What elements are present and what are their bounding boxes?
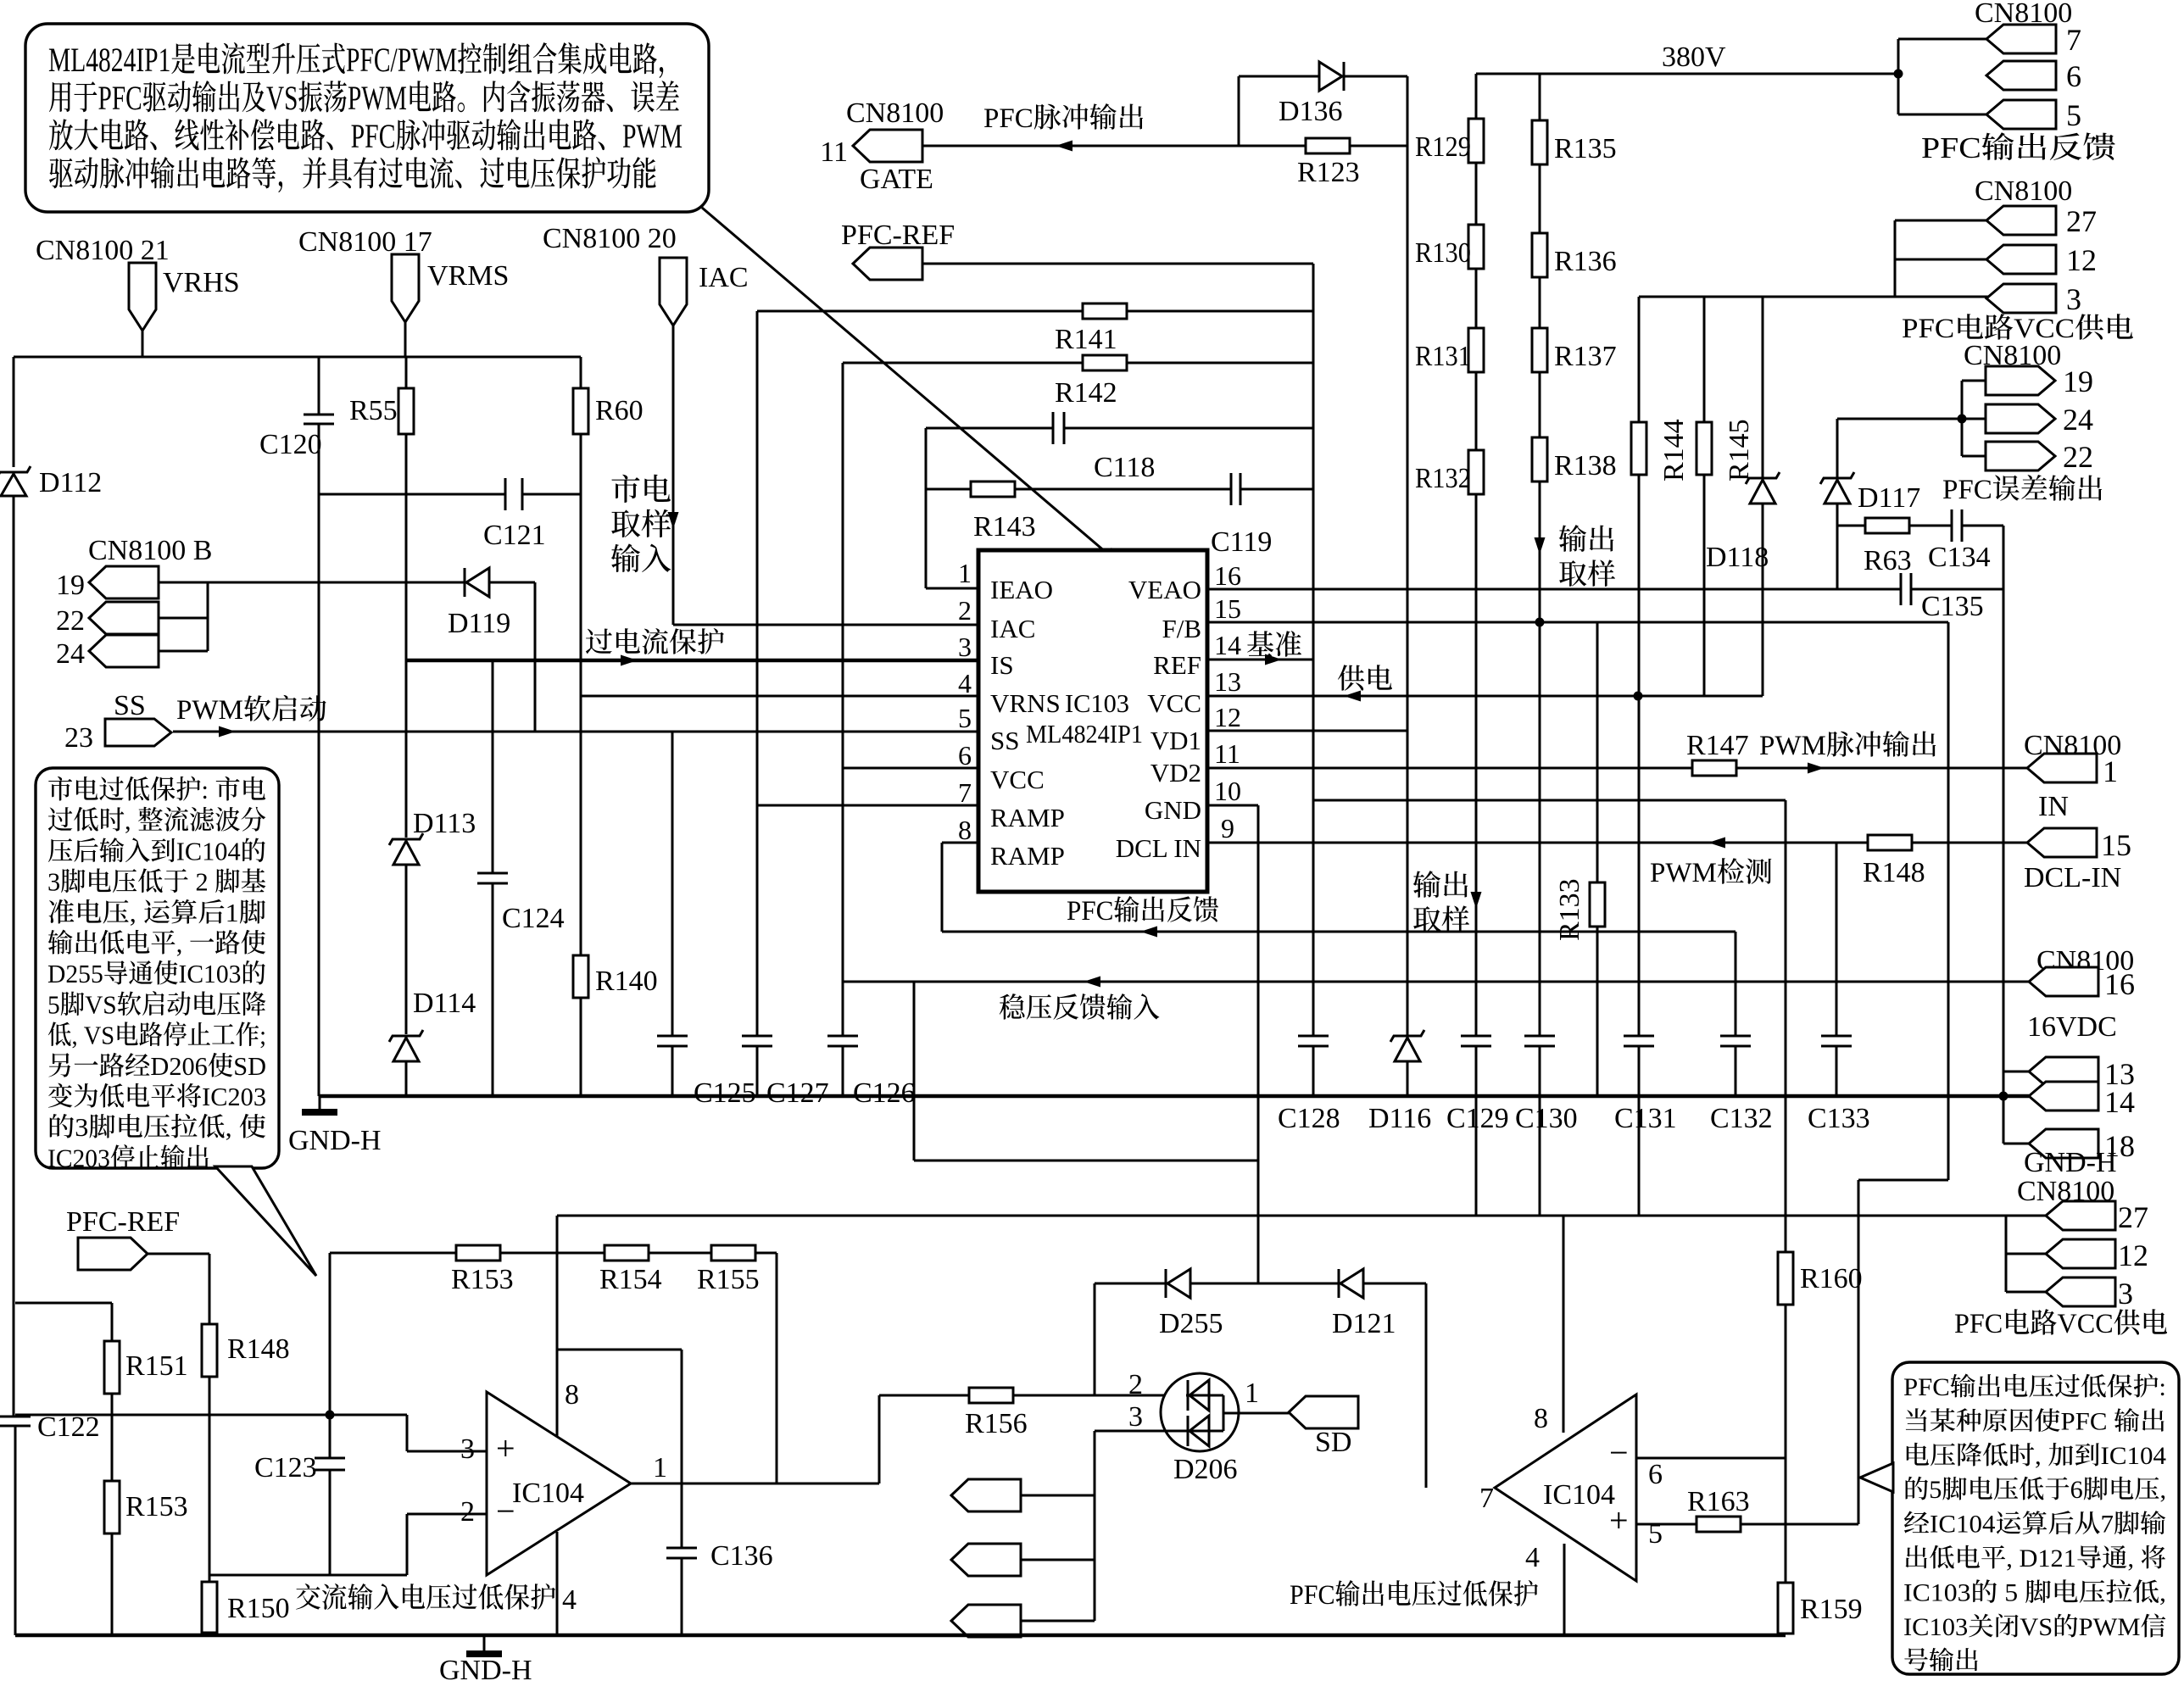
svg-text:+: + (496, 1429, 515, 1467)
resistor R123 (1306, 138, 1350, 153)
svg-text:C132: C132 (1710, 1103, 1773, 1134)
wire pin19 stub (1962, 380, 1986, 382)
wire R129 top stub (1475, 74, 1478, 119)
svg-text:REF: REF (1153, 650, 1201, 680)
diode D113 (zener) (389, 833, 423, 845)
svg-text:1: 1 (653, 1452, 667, 1483)
wire regulation feedback input to 16VDC pin (843, 981, 2029, 983)
wire below bus at C129 (1475, 1096, 1478, 1216)
wire gate-drive vertical down to D116 (1407, 76, 1409, 1036)
resistor R60 (573, 388, 588, 434)
svg-text:7: 7 (1479, 1483, 1494, 1514)
resistor R143 (971, 481, 1015, 497)
svg-text:的5脚电压低于6脚电压,: 的5脚电压低于6脚电压, (1903, 1476, 2166, 1504)
svg-text:R135: R135 (1554, 133, 1617, 164)
svg-text:R148: R148 (227, 1333, 290, 1365)
wire R148 to DCL-IN connector (1912, 842, 2027, 844)
wire R143 left stub (926, 488, 971, 491)
wire R138 chain down to C130 (1539, 481, 1541, 1036)
svg-text:3: 3 (2066, 282, 2081, 316)
wire IC103 pin11 VD2 to R147 (1207, 767, 1692, 770)
capacitor C125 (657, 1035, 688, 1038)
wire IC103 pin1 stub (926, 587, 978, 590)
svg-text:VRNS: VRNS (990, 688, 1061, 718)
wire ground bus lower section (15, 1634, 1786, 1638)
wire PFC output feedback (942, 931, 1735, 933)
wire left edge upper segment (13, 357, 15, 467)
svg-text:DCL IN: DCL IN (1116, 833, 1201, 863)
diode D119 (464, 568, 466, 597)
wire op-amp1 pin4 to bus (556, 1532, 559, 1635)
wire SS / PWM soft-start to IC103 pin5 (173, 731, 978, 733)
svg-text:24: 24 (56, 638, 85, 670)
wire joining pins 7/6/5 (1897, 39, 1900, 114)
wire pin2 step down (406, 1514, 409, 1575)
svg-text:PFC-REF: PFC-REF (841, 220, 955, 251)
wire C132 to bus (1735, 1046, 1737, 1096)
arrow on DCL wire (1708, 838, 1725, 849)
svg-text:R138: R138 (1554, 450, 1617, 481)
svg-text:R153: R153 (451, 1264, 514, 1295)
svg-text:19: 19 (2063, 365, 2093, 398)
svg-text:另一路经D206使SD: 另一路经D206使SD (47, 1051, 266, 1081)
capacitor C119 (1230, 473, 1233, 505)
svg-text:R155: R155 (697, 1264, 760, 1295)
svg-text:24: 24 (2063, 403, 2093, 437)
resistor R144 (1631, 422, 1646, 475)
capacitor C128 (1298, 1035, 1329, 1038)
wire PWM pulse output (1736, 767, 2027, 770)
svg-text:C133: C133 (1808, 1103, 1870, 1134)
wire op-amp2 pin6 (1636, 1457, 1786, 1460)
svg-text:C134: C134 (1928, 542, 1991, 573)
resistor R145 (1696, 422, 1712, 475)
svg-text:4: 4 (562, 1584, 577, 1616)
wire C125 to bus (671, 1046, 674, 1096)
wire pin3b stub (2006, 1291, 2047, 1294)
wire lower rail to R163 node (1858, 1216, 1860, 1524)
wire R55 top stub (405, 357, 408, 388)
wire IC103 pin7 RAMP (757, 804, 978, 807)
svg-text:GATE: GATE (860, 164, 933, 195)
connector CN8100-20 IAC (660, 258, 687, 326)
wire lower rail (op-amp supply / D121 net) (557, 1215, 2006, 1217)
diode D114 (zener) (389, 1030, 423, 1042)
wire IC103 pin12 VD1 to gate-drive node (1207, 730, 1407, 732)
svg-text:VRHS: VRHS (163, 267, 240, 298)
wire feedback to output (776, 1253, 778, 1483)
connector CN8100-15 DCL-IN (2027, 828, 2097, 857)
svg-text:16: 16 (1214, 560, 1241, 591)
svg-text:变为低电平将IC203: 变为低电平将IC203 (47, 1082, 266, 1111)
resistor R148 (1868, 835, 1912, 850)
resistor R135 (1532, 120, 1547, 164)
svg-text:R148: R148 (1863, 857, 1925, 888)
svg-text:供电: 供电 (1337, 665, 1393, 695)
wire IAC input down to IC103 pin2 (672, 326, 675, 625)
svg-text:5: 5 (2066, 98, 2081, 132)
svg-text:R147: R147 (1686, 730, 1749, 761)
svg-text:PFC电路VCC供电: PFC电路VCC供电 (1954, 1309, 2168, 1339)
resistor R147 (1692, 760, 1736, 776)
svg-text:19: 19 (56, 570, 85, 601)
wire GND node down (1257, 805, 1260, 1161)
wire vertical through bus to lower net (1785, 800, 1787, 1216)
wire joining pins 27/12/3 (1894, 220, 1897, 297)
wire R160 to R159 (1785, 1305, 1787, 1583)
wire R153 to bus (111, 1533, 114, 1635)
svg-text:R151: R151 (125, 1350, 188, 1382)
svg-text:C119: C119 (1211, 526, 1272, 558)
junction 380V feedback (1894, 70, 1903, 79)
wire C131 to bus (1638, 1046, 1641, 1096)
wire GND-H stub (319, 1096, 321, 1110)
svg-text:CN8100 17: CN8100 17 (298, 226, 432, 258)
wire D119 down to SS line (534, 582, 537, 732)
wire C120 top stub (318, 357, 320, 415)
svg-text:12: 12 (2118, 1238, 2148, 1272)
connector CN8100-11 GATE (853, 130, 922, 162)
svg-text:VD1: VD1 (1150, 726, 1201, 755)
svg-text:GND: GND (1145, 795, 1201, 825)
wire IC103 pin16 VEAO to C135 (1207, 588, 1901, 591)
resistor R155 (711, 1245, 755, 1261)
svg-text:VCC: VCC (990, 765, 1045, 794)
svg-text:2: 2 (460, 1496, 475, 1528)
svg-text:6: 6 (958, 740, 972, 771)
svg-text:7: 7 (2066, 23, 2081, 57)
resistor R55 (398, 388, 414, 434)
svg-text:经IC104运算后从7脚输: 经IC104运算后从7脚输 (1903, 1511, 2166, 1539)
wire overcurrent protection to IC103 pin3 (406, 659, 978, 662)
svg-text:IEAO: IEAO (990, 575, 1053, 604)
svg-text:3脚电压低于 2 脚基: 3脚电压低于 2 脚基 (47, 867, 266, 897)
svg-text:SS: SS (114, 690, 146, 721)
svg-text:的3脚电压拉低, 使: 的3脚电压拉低, 使 (47, 1112, 266, 1142)
wire R55 down to D113 (405, 434, 408, 838)
wire R142-left vertical down to C126 (842, 363, 844, 1036)
resistor R131 (1468, 328, 1484, 372)
capacitor C124 (477, 872, 508, 875)
wire D116 to bus (1407, 1061, 1409, 1096)
svg-text:D114: D114 (413, 988, 476, 1019)
wire joining pins 19/22/24 (207, 582, 209, 651)
svg-text:取样: 取样 (1558, 559, 1616, 591)
diode D117 (zener) (1820, 472, 1854, 484)
wire R148b to R150 (209, 1377, 211, 1582)
wire R148b top (209, 1254, 211, 1324)
svg-text:PFC输出反馈: PFC输出反馈 (1067, 895, 1219, 927)
wire jog down to lower rail (1858, 1180, 1860, 1216)
wire feedback row left vertical (329, 1253, 331, 1415)
wire D206 pin3 left (1095, 1430, 1186, 1433)
wire C127 to bus (756, 1046, 759, 1096)
svg-text:IAC: IAC (990, 614, 1035, 643)
wire pin19 to D119 (159, 582, 465, 584)
svg-text:R132: R132 (1415, 463, 1471, 494)
svg-text:9: 9 (1221, 813, 1234, 843)
wire IC103 pin14 REF (1207, 659, 1313, 661)
resistor R129 (1468, 119, 1484, 163)
connector CN8100-13 (2029, 1057, 2098, 1086)
svg-text:R144: R144 (1658, 419, 1690, 481)
svg-text:6: 6 (2066, 59, 2081, 93)
resistor R163 (1696, 1517, 1741, 1532)
svg-text:14: 14 (1214, 630, 1241, 660)
wire C124 top (492, 660, 494, 873)
wire R131-R132 (1475, 372, 1478, 450)
connector CN8100-17 VRMS (392, 254, 419, 322)
svg-text:D206: D206 (1173, 1454, 1238, 1485)
ground symbol GND-H lower (466, 1650, 502, 1657)
wire pin7 stub (1898, 38, 1988, 41)
wire R60 top stub (580, 357, 582, 388)
svg-text:R131: R131 (1415, 341, 1471, 372)
wire GND-H lower stub (483, 1635, 486, 1651)
svg-text:13: 13 (1214, 666, 1241, 697)
wire pin12 stub (1895, 259, 1988, 261)
wire R141 right segment (1127, 310, 1313, 313)
wire joining lower 27/12/3 (2005, 1216, 2008, 1292)
wire down to C131 (1638, 696, 1641, 1036)
svg-text:VRMS: VRMS (427, 260, 509, 292)
resistor R141 (1083, 303, 1127, 319)
svg-text:16VDC: 16VDC (2027, 1011, 2117, 1043)
svg-text:C122: C122 (37, 1411, 100, 1443)
connector spare 3 (951, 1605, 1021, 1637)
svg-text:CN8100 20: CN8100 20 (543, 223, 677, 254)
svg-text:11: 11 (1214, 738, 1240, 769)
svg-text:R133: R133 (1554, 878, 1585, 941)
wire R142 right segment (1127, 362, 1313, 365)
wire PFC-REF to feedback node (922, 263, 1313, 265)
wire op-amp2 pin4 to bus (1563, 1544, 1566, 1635)
svg-text:7: 7 (958, 777, 972, 808)
resistor R159 (1778, 1583, 1793, 1634)
wire C118 left (926, 427, 1053, 430)
svg-text:CN8100: CN8100 (1975, 175, 2072, 207)
svg-text:PFC输出反馈: PFC输出反馈 (1921, 131, 2116, 164)
wire PFC pulse output to R123 (922, 145, 1407, 148)
svg-text:PFC误差输出: PFC误差输出 (1942, 474, 2104, 505)
annotation box1: ML4824IP1 description (25, 24, 709, 212)
svg-text:PWM脉冲输出: PWM脉冲输出 (1759, 730, 1938, 761)
capacitor C136 (666, 1547, 697, 1550)
capacitor C127 (742, 1035, 772, 1038)
wire R150 to bus (209, 1633, 211, 1635)
svg-text:C130: C130 (1515, 1103, 1578, 1134)
svg-text:1: 1 (2103, 754, 2118, 788)
wire C120 down to ground bus (318, 424, 320, 1096)
wire pin3 down to spare connectors (1094, 1431, 1096, 1621)
capacitor C123 (315, 1457, 345, 1460)
svg-text:R154: R154 (599, 1264, 662, 1295)
svg-text:D116: D116 (1368, 1103, 1431, 1134)
diode D112 (zener) (0, 466, 31, 478)
arrow on PFC output feedback wire (1140, 927, 1157, 938)
connector CN8100-16 (2029, 967, 2098, 996)
capacitor C131 (1624, 1035, 1654, 1038)
junction R144/VCC (1634, 692, 1643, 701)
capacitor C126 (827, 1035, 858, 1038)
wire pin8 down (941, 843, 944, 932)
svg-text:IC103的 5 脚电压拉低,: IC103的 5 脚电压拉低, (1903, 1578, 2166, 1606)
capacitor C135 (1900, 573, 1903, 605)
arrow on IS wire (621, 655, 638, 666)
wire right vertical C134/C135 node down to pin18 (2003, 526, 2005, 1144)
svg-text:C120: C120 (259, 429, 322, 460)
wire ground bus upper section (320, 1094, 2029, 1099)
diode D255 (1165, 1269, 1167, 1298)
svg-text:CN8100 B: CN8100 B (88, 535, 212, 566)
svg-text:1: 1 (1245, 1378, 1259, 1409)
svg-text:6: 6 (1648, 1459, 1663, 1490)
svg-text:R163: R163 (1687, 1486, 1750, 1517)
junction C123 node (326, 1411, 335, 1420)
resistor R150 (202, 1582, 217, 1633)
svg-text:C127: C127 (766, 1077, 829, 1109)
connector CN8100-22 (89, 602, 159, 634)
svg-text:C126: C126 (853, 1077, 916, 1109)
wire D255 left down to R156 node (1094, 1283, 1096, 1395)
resistor R130 (1468, 225, 1484, 269)
svg-text:驱动脉冲输出电路等，并具有过电流、过电压保护功能: 驱动脉冲输出电路等，并具有过电流、过电压保护功能 (48, 155, 657, 193)
capacitor C130 (1524, 1035, 1555, 1038)
wire R142 left segment (843, 362, 1083, 365)
connector CN8100-3 (1986, 284, 2056, 313)
diode D136 (1319, 62, 1342, 91)
svg-text:3: 3 (1128, 1401, 1143, 1433)
svg-text:C128: C128 (1278, 1103, 1340, 1134)
capacitor C132 (1720, 1035, 1751, 1038)
resistor R151 (104, 1341, 120, 1394)
wire below bus at C130 (1539, 1096, 1541, 1216)
wire D121 right down to op-amp2 output (1425, 1283, 1428, 1488)
svg-text:R143: R143 (973, 511, 1036, 543)
wire op-amp2 pin8 supply (1563, 1216, 1565, 1433)
capacitor C118 (1052, 412, 1055, 444)
svg-text:C118: C118 (1094, 452, 1155, 483)
arrow on PWM pulse output (1808, 763, 1825, 774)
svg-text:11: 11 (820, 136, 848, 168)
wire VRMS stub (404, 322, 407, 357)
svg-text:输出: 输出 (1412, 871, 1470, 902)
wire C135 right (1911, 588, 2003, 591)
svg-text:27: 27 (2118, 1200, 2148, 1234)
connector CN8100-27b (2046, 1201, 2115, 1230)
ground symbol GND-H upper (302, 1109, 337, 1116)
resistor R154 (604, 1245, 649, 1261)
wire pin5 stub (1898, 114, 1988, 116)
svg-text:PWM检测: PWM检测 (1650, 858, 1773, 888)
wire pin12b stub (2006, 1253, 2047, 1255)
wire C123 bottom (329, 1470, 331, 1575)
wire R135 top stub (1539, 74, 1541, 120)
connector CN8100-6 (1986, 61, 2056, 90)
connector CN8100-7 (1986, 25, 2056, 53)
wire feedback jog down (913, 982, 916, 1161)
wire spare3 (1021, 1620, 1095, 1623)
resistor R160 (1778, 1252, 1793, 1305)
resistor R133 (1590, 882, 1605, 927)
wire D118 bottom to VCC wire (1762, 504, 1764, 696)
wire pin27 stub (1895, 220, 1988, 222)
svg-text:IC104: IC104 (512, 1478, 584, 1509)
svg-text:稳压反馈输入: 稳压反馈输入 (999, 993, 1160, 1024)
connector CN8100-5 (1986, 100, 2056, 129)
svg-text:IC203停止输出: IC203停止输出 (47, 1143, 210, 1172)
svg-text:PWM软启动: PWM软启动 (176, 694, 327, 726)
svg-text:号输出: 号输出 (1903, 1647, 1980, 1675)
op-amp U-IC104a triangle (487, 1392, 631, 1575)
svg-text:5脚VS软启动电压降: 5脚VS软启动电压降 (47, 989, 266, 1019)
wire C129 to bus (1475, 1046, 1478, 1096)
annotation box3: PFC output undervoltage protection (1892, 1362, 2179, 1674)
svg-text:380V: 380V (1662, 42, 1726, 73)
connector CN8100-1 IN (2027, 754, 2097, 782)
connector CN8100-12b (2046, 1239, 2115, 1268)
diode D116 (zener) (1390, 1030, 1424, 1042)
svg-text:C124: C124 (502, 903, 565, 934)
capacitor C133 (1821, 1035, 1852, 1038)
svg-text:过电流保护: 过电流保护 (585, 627, 725, 659)
svg-text:23: 23 (64, 722, 93, 754)
svg-text:R159: R159 (1800, 1594, 1863, 1625)
wire pin18 stub (2003, 1143, 2029, 1145)
resistor R132 (1468, 450, 1484, 494)
op-amp U-IC104b triangle (1495, 1394, 1636, 1581)
wire R141 left segment (757, 310, 1083, 313)
wire op-amp1 output pin1 (631, 1483, 879, 1485)
svg-text:基准: 基准 (1246, 630, 1302, 661)
wire D118 top (1762, 297, 1764, 478)
svg-text:电压降低时, 加到IC104: 电压降低时, 加到IC104 (1903, 1442, 2166, 1470)
wire pin3 stub (1895, 296, 1988, 298)
wire spare1 (1021, 1495, 1095, 1497)
svg-text:放大电路、线性补偿电路、PFC脉冲驱动输出电路、PWM: 放大电路、线性补偿电路、PFC脉冲驱动输出电路、PWM (48, 117, 682, 155)
wire C136 to bus (681, 1558, 683, 1635)
junction F/B and R138 chain (1535, 618, 1545, 627)
annotation box2: mains undervoltage protection (36, 768, 279, 1168)
svg-text:8: 8 (1534, 1403, 1548, 1434)
resistor R142 (1083, 355, 1127, 370)
wire C121 right (522, 493, 581, 496)
wire D206 pin1 to SD (1223, 1412, 1289, 1415)
svg-text:过低时, 整流滤波分: 过低时, 整流滤波分 (47, 805, 266, 835)
svg-text:4: 4 (1525, 1542, 1540, 1573)
connector SD (1289, 1396, 1358, 1428)
svg-text:输入: 输入 (610, 543, 671, 576)
svg-text:R156: R156 (965, 1408, 1028, 1439)
svg-text:3: 3 (2118, 1277, 2133, 1311)
svg-text:IS: IS (990, 650, 1014, 680)
wire pin24 stub (159, 650, 208, 653)
wire R60 down through C121 and VRNS nodes (580, 434, 582, 955)
arrow on REF wire (1265, 654, 1282, 665)
svg-text:PFC脉冲输出: PFC脉冲输出 (983, 103, 1145, 134)
wire R144 bottom to VCC wire (1638, 475, 1641, 696)
wire left edge middle segment (13, 496, 15, 1417)
wire feedback jog right (914, 1160, 1258, 1162)
svg-text:2: 2 (958, 595, 972, 626)
resistor R148 (lower) (202, 1324, 217, 1377)
wire spare2 (1021, 1559, 1095, 1561)
wire R163 right (1741, 1523, 1858, 1526)
svg-text:R142: R142 (1055, 377, 1117, 409)
svg-text:GND-H: GND-H (288, 1125, 382, 1156)
wire R133 top from F/B (1596, 622, 1599, 882)
callout pointer of box3 (1860, 1463, 1893, 1492)
